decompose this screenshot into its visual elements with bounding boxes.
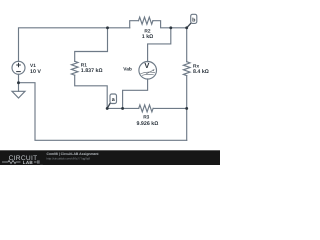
label Rx	[193, 63, 199, 69]
svg-text:10 V: 10 V	[30, 69, 41, 75]
resistor Rx	[183, 62, 190, 76]
wire Rx bottom lead to bottom rail	[186, 76, 188, 141]
svg-text:http://circuitlab.com/c66a777q: http://circuitlab.com/c66a777qg0q8	[47, 157, 91, 161]
ground	[12, 83, 25, 98]
junction V1 ground	[17, 81, 20, 84]
voltmeter needle	[146, 70, 153, 74]
voltmeter gauge scale arcs	[140, 72, 155, 75]
node a leader	[107, 104, 110, 109]
wire V1 bottom lead	[18, 74, 20, 82]
svg-text:V: V	[144, 61, 149, 70]
junction voltmeter top	[169, 26, 172, 29]
voltage source V1	[12, 61, 25, 74]
value 10 V	[30, 69, 41, 75]
footer caption line 2	[47, 157, 91, 161]
wire right rail down through Rx to bottom	[186, 28, 188, 62]
svg-text:Vab: Vab	[123, 67, 132, 73]
svg-text:1 kΩ: 1 kΩ	[142, 34, 153, 40]
wire R2 right jog to node b corner	[153, 21, 187, 28]
svg-text:1.837 kΩ: 1.837 kΩ	[81, 68, 103, 74]
V1 plus sign	[16, 63, 21, 68]
wire R1 bottom lead to node a	[75, 75, 108, 108]
resistor R2	[139, 17, 153, 24]
voltmeter V symbol	[144, 61, 149, 70]
resistor R1	[71, 61, 78, 75]
wire R3 right segment	[153, 107, 187, 109]
wire R1 top branch from top rail	[75, 28, 108, 62]
svg-text:LAB: LAB	[23, 160, 34, 165]
footer logo wire art	[2, 160, 21, 163]
voltmeter Vab circle	[139, 62, 157, 80]
label Vab	[123, 67, 132, 73]
value 8.4 kOhm	[193, 69, 209, 75]
value 1 kOhm	[142, 34, 153, 40]
label R2	[144, 29, 150, 35]
junction voltmeter bottom	[121, 107, 124, 110]
svg-text:R3: R3	[143, 114, 149, 120]
resistor R3	[139, 105, 153, 112]
label R3	[143, 114, 149, 120]
footer bar	[0, 150, 220, 165]
node b letter	[192, 17, 196, 23]
junction R3 Rx	[185, 107, 188, 110]
wire top rail from V1 to R2	[19, 28, 130, 62]
V1 minus sign	[16, 71, 21, 73]
svg-text:9.926 kΩ: 9.926 kΩ	[137, 121, 159, 127]
label V1	[30, 63, 36, 69]
wire voltmeter top lead	[148, 28, 171, 62]
footer caption line 1	[47, 152, 100, 156]
node a box	[110, 94, 117, 104]
node b box	[191, 14, 197, 23]
wire ground branch to bottom rail	[19, 83, 187, 141]
label R1	[81, 62, 87, 68]
footer CircuitLab logo	[9, 155, 38, 165]
node b leader	[187, 23, 191, 27]
voltmeter needle arrowhead	[153, 69, 155, 71]
svg-text:8.4 kΩ: 8.4 kΩ	[193, 69, 209, 75]
junction R1 top	[106, 26, 109, 29]
value 9.926 kOhm	[137, 121, 159, 127]
wire R2 left jog	[130, 21, 139, 28]
junction node a	[106, 107, 109, 110]
wire voltmeter bottom lead	[123, 79, 148, 108]
node a letter	[112, 97, 116, 103]
wire R3 left segment	[107, 107, 139, 109]
svg-text:Com08 | CircuitLAB Assignment: Com08 | CircuitLAB Assignment	[47, 152, 100, 156]
junction node b corner	[185, 26, 188, 29]
value 1.837 kOhm	[81, 68, 103, 74]
